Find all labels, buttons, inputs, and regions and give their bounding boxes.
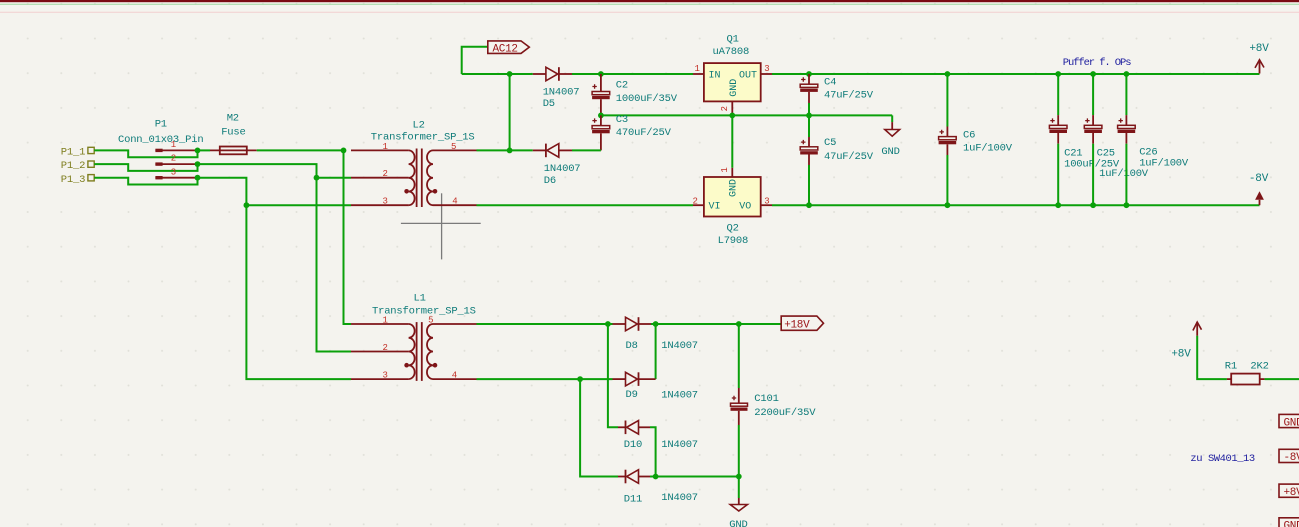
cursor crosshair: [401, 193, 481, 259]
junction C6 bottom: [945, 202, 951, 208]
svg-text:3: 3: [383, 371, 388, 381]
svg-text:VO: VO: [739, 202, 751, 213]
svg-text:-8V: -8V: [1284, 452, 1299, 464]
svg-text:3: 3: [764, 197, 769, 207]
svg-text:1: 1: [383, 316, 388, 326]
junction C6 top: [945, 71, 951, 77]
global label +18V: [781, 316, 823, 332]
svg-text:470uF/25V: 470uF/25V: [616, 127, 672, 139]
junction C4 top: [806, 71, 812, 77]
wire net3 branch L2 pin3: [246, 204, 351, 206]
wire D5 to U1: [572, 73, 693, 75]
junction D10 branch: [605, 321, 611, 327]
svg-text:2200uF/35V: 2200uF/35V: [754, 407, 816, 419]
svg-text:GND: GND: [1284, 417, 1299, 429]
svg-text:Q2: Q2: [727, 222, 739, 234]
diode D10: [618, 421, 698, 452]
svg-text:47uF/25V: 47uF/25V: [824, 151, 874, 163]
svg-text:P1_2: P1_2: [61, 160, 85, 172]
svg-text:1uF/100V: 1uF/100V: [963, 142, 1013, 154]
svg-text:C5: C5: [824, 137, 836, 149]
svg-text:P1: P1: [155, 119, 167, 131]
connector P1: [118, 119, 203, 180]
transformer L1: [351, 292, 477, 381]
svg-text:47uF/25V: 47uF/25V: [824, 90, 874, 102]
svg-text:5: 5: [451, 142, 456, 152]
wire +8V rail: [772, 73, 1260, 75]
svg-text:L7908: L7908: [718, 235, 749, 247]
svg-text:L1: L1: [414, 292, 426, 304]
svg-text:1: 1: [695, 64, 700, 74]
wire AC12 stub: [462, 47, 488, 74]
global label -8V (right edge): [1279, 449, 1299, 464]
capacitor C26: [1118, 74, 1189, 205]
svg-text:R1: R1: [1225, 361, 1237, 373]
svg-text:GND: GND: [881, 146, 899, 158]
global label AC12: [488, 41, 530, 55]
transformer L2: [351, 120, 477, 208]
wire net1 down to L1 pin1: [344, 150, 352, 324]
svg-text:D11: D11: [624, 494, 642, 506]
svg-text:3: 3: [171, 167, 176, 177]
junction C5 bottom: [806, 202, 812, 208]
junction C21 bottom: [1055, 202, 1061, 208]
svg-text:D5: D5: [543, 98, 555, 110]
power -8V right: [1249, 173, 1269, 205]
wire D8/D9 cathode vertical: [655, 324, 657, 379]
junction C25 bottom: [1090, 202, 1096, 208]
wire C101 column top: [738, 324, 740, 388]
capacitor C21: [1049, 74, 1120, 205]
svg-text:1N4007: 1N4007: [661, 390, 698, 402]
svg-text:2K2: 2K2: [1250, 361, 1268, 373]
junction D11 branch: [577, 376, 583, 382]
wire Q2 pin1 vertical: [731, 115, 733, 167]
wire P1_3 to pin3: [94, 178, 197, 185]
junction Q1 pin2 / GND rail: [729, 113, 735, 119]
svg-text:GND: GND: [729, 79, 740, 97]
junction C101 top: [736, 321, 742, 327]
diode D8: [613, 317, 698, 352]
frame top border: [0, 0, 1299, 2]
svg-text:1: 1: [171, 140, 176, 150]
svg-text:GND: GND: [1284, 521, 1299, 527]
hierarchical label P1_1: [61, 147, 94, 159]
svg-text:zu SW401_13: zu SW401_13: [1190, 453, 1255, 465]
svg-text:Q1: Q1: [727, 34, 739, 46]
regulator Q2 L7908: [693, 167, 773, 247]
svg-text:+8V: +8V: [1171, 348, 1191, 360]
svg-text:C4: C4: [824, 76, 836, 88]
fuse M2: [210, 113, 257, 155]
power GND (near C5): [881, 122, 899, 158]
svg-text:+18V: +18V: [784, 320, 810, 332]
capacitor C25: [1084, 74, 1149, 205]
svg-text:OUT: OUT: [739, 70, 757, 81]
wire L2 pin4 to Q2 VI: [477, 204, 694, 206]
svg-text:1uF/100V: 1uF/100V: [1099, 168, 1149, 180]
power +8V top right: [1249, 43, 1269, 74]
wire P1_1 to pin1: [94, 150, 197, 157]
svg-text:4: 4: [452, 197, 457, 207]
svg-text:C6: C6: [963, 130, 975, 142]
svg-text:D8: D8: [626, 340, 638, 352]
svg-text:5: 5: [428, 316, 433, 326]
junction C4/C5 GND rail: [806, 113, 812, 119]
hierarchical label P1_3: [61, 174, 94, 186]
svg-text:2: 2: [383, 343, 388, 353]
junction pin3: [195, 175, 201, 181]
power +8V (bottom section): [1171, 322, 1201, 360]
svg-text:Puffer f. OPs: Puffer f. OPs: [1063, 57, 1131, 69]
wire AC1 to D10: [608, 324, 618, 427]
svg-text:Fuse: Fuse: [221, 126, 245, 138]
svg-text:C2: C2: [616, 80, 628, 92]
wire net2 branch L2 pin2: [317, 177, 352, 179]
diode D6: [533, 144, 581, 187]
wire AC12 row: [462, 73, 533, 75]
capacitor C3: [592, 114, 672, 150]
svg-text:2: 2: [720, 106, 730, 111]
svg-text:GND: GND: [729, 519, 747, 527]
diode D9: [613, 372, 698, 401]
svg-text:-8V: -8V: [1249, 173, 1269, 185]
junction C21 top: [1055, 71, 1061, 77]
svg-text:1: 1: [720, 167, 730, 172]
svg-text:IN: IN: [709, 70, 721, 81]
junction C25 top: [1090, 71, 1096, 77]
svg-text:2: 2: [693, 197, 698, 207]
wire L1 pin4 row: [477, 378, 613, 380]
wire R1 to edge: [1265, 378, 1299, 380]
wire L2 pin5 right: [477, 149, 533, 151]
capacitor C2: [592, 74, 678, 115]
wire L1 pin5 row: [477, 323, 613, 325]
svg-text:3: 3: [764, 64, 769, 74]
svg-text:P1_1: P1_1: [61, 147, 85, 159]
capacitor C4: [800, 74, 874, 115]
junction D8/D9 cathodes: [653, 321, 659, 327]
wire +8V to R1: [1197, 336, 1227, 379]
svg-text:C25: C25: [1097, 148, 1115, 160]
svg-text:2: 2: [171, 154, 176, 164]
svg-text:L2: L2: [413, 120, 425, 132]
svg-text:GND: GND: [729, 179, 740, 197]
svg-text:C3: C3: [616, 114, 628, 126]
svg-text:1N4007: 1N4007: [661, 340, 698, 352]
junction AC12 branch: [507, 148, 513, 154]
svg-text:D9: D9: [626, 389, 638, 401]
wire fuse to L2: [257, 149, 344, 151]
capacitor C101: [731, 388, 817, 477]
capacitor C6: [939, 74, 1013, 205]
wire GND stub: [891, 115, 893, 122]
svg-text:D10: D10: [624, 439, 642, 451]
junction C101 bottom: [736, 474, 742, 480]
svg-text:1: 1: [383, 142, 388, 152]
junction net1: [341, 148, 347, 154]
wire pin3 right: [198, 178, 247, 206]
wire D10 anode down: [650, 427, 656, 476]
wire D8 to +18V: [651, 323, 781, 325]
wire pin1 to fuse: [198, 149, 211, 151]
wire P1_2 to pin2: [94, 164, 197, 171]
svg-text:1N4007: 1N4007: [661, 439, 698, 451]
global label GND (right edge 2): [1279, 518, 1299, 527]
svg-text:Conn_01x03_Pin: Conn_01x03_Pin: [118, 134, 203, 146]
wire AC2 to D11: [580, 379, 618, 476]
svg-text:1N4007: 1N4007: [543, 86, 580, 98]
svg-text:1N4007: 1N4007: [544, 163, 581, 175]
svg-text:VI: VI: [709, 202, 721, 213]
junction pin1: [195, 148, 201, 154]
svg-text:1000uF/35V: 1000uF/35V: [616, 93, 678, 105]
capacitor C5: [800, 115, 874, 205]
junction C2 top: [598, 71, 604, 77]
wire D6 to C3: [572, 149, 601, 151]
junction net2: [314, 175, 320, 181]
svg-text:+8V: +8V: [1249, 43, 1269, 55]
global label +8V (right edge): [1279, 484, 1299, 499]
svg-text:2: 2: [383, 169, 388, 179]
wire pin2 to L2 pin2: [198, 164, 317, 178]
junction top: [507, 71, 513, 77]
svg-text:AC12: AC12: [493, 43, 518, 55]
wire net3 down to L1 pin3: [246, 205, 351, 379]
wire D11 to GND: [650, 476, 739, 478]
wire GND rail: [601, 114, 892, 116]
svg-text:4: 4: [452, 371, 457, 381]
junction pin2: [195, 161, 201, 167]
junction D10/D11: [653, 474, 659, 480]
diode D11: [618, 470, 698, 506]
wire AC12 vertical: [509, 74, 511, 150]
global label GND (right edge 1): [1279, 414, 1299, 429]
wire GND stub bottom: [738, 477, 740, 499]
svg-text:1uF/100V: 1uF/100V: [1139, 158, 1189, 170]
resistor R1: [1225, 361, 1269, 385]
junction C2/C3: [598, 113, 604, 119]
junction net3: [244, 202, 250, 208]
hierarchical label P1_2: [61, 160, 94, 172]
junction C26 bottom: [1124, 202, 1130, 208]
diode D5: [533, 67, 580, 110]
svg-text:P1_3: P1_3: [61, 174, 85, 186]
svg-text:C101: C101: [754, 393, 778, 405]
regulator Q1 uA7808: [693, 34, 772, 114]
svg-text:D6: D6: [544, 175, 556, 187]
svg-text:M2: M2: [227, 113, 239, 125]
wire -8V rail: [772, 204, 1260, 206]
junction C26 top: [1124, 71, 1130, 77]
svg-text:uA7808: uA7808: [713, 46, 750, 58]
svg-text:3: 3: [383, 197, 388, 207]
power GND (bottom): [729, 498, 747, 527]
wire net2 down to L1 pin2: [317, 178, 352, 352]
svg-text:1N4007: 1N4007: [661, 492, 698, 504]
svg-text:+8V: +8V: [1284, 487, 1299, 499]
